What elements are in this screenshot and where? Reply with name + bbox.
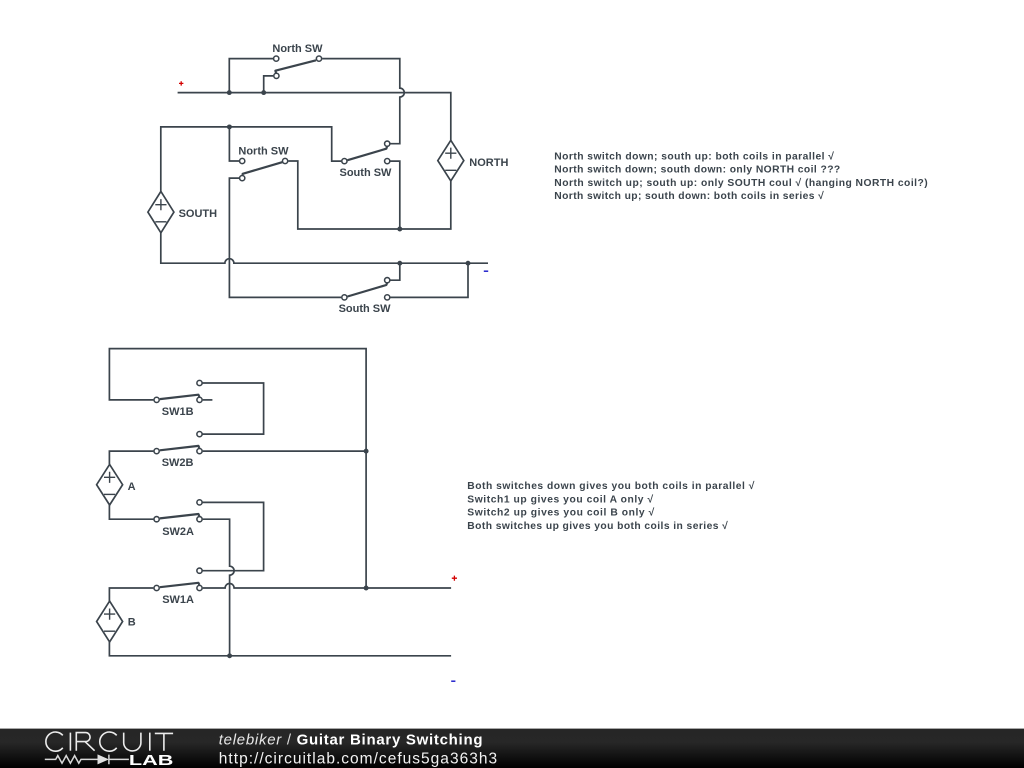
svg-text:A: A — [128, 481, 136, 493]
svg-text:North switch down; south down:: North switch down; south down: only NORT… — [554, 165, 840, 176]
svg-text:South SW: South SW — [339, 303, 392, 315]
svg-text:SOUTH: SOUTH — [179, 208, 218, 220]
svg-text:LAB: LAB — [129, 753, 174, 768]
svg-text:Both switches down gives you b: Both switches down gives you both coils … — [467, 480, 754, 492]
svg-text:SW2B: SW2B — [162, 457, 194, 469]
svg-text:North SW: North SW — [238, 145, 289, 157]
svg-text:Switch2 up gives you coil B on: Switch2 up gives you coil B only √ — [467, 507, 654, 519]
svg-text:South SW: South SW — [340, 167, 393, 179]
svg-text:Switch1 up gives you coil A on: Switch1 up gives you coil A only √ — [467, 493, 653, 505]
svg-text:B: B — [128, 616, 136, 628]
svg-text:SW2A: SW2A — [162, 526, 194, 538]
svg-text:SW1A: SW1A — [162, 594, 194, 606]
svg-text:SW1B: SW1B — [162, 406, 194, 418]
svg-text:North switch down; south up: b: North switch down; south up: both coils … — [554, 150, 834, 162]
svg-text:North switch up; south down: b: North switch up; south down: both coils … — [554, 190, 824, 202]
svg-text:NORTH: NORTH — [469, 157, 508, 169]
svg-text:North SW: North SW — [272, 43, 323, 55]
svg-text:Both switches up gives you bot: Both switches up gives you both coils in… — [467, 520, 728, 532]
svg-text:North switch up; south up: onl: North switch up; south up: only SOUTH co… — [554, 177, 927, 189]
svg-text:telebiker / Guitar Binary Swit: telebiker / Guitar Binary Switching — [219, 731, 483, 748]
svg-text:http://circuitlab.com/cefus5ga: http://circuitlab.com/cefus5ga363h3 — [219, 751, 497, 768]
